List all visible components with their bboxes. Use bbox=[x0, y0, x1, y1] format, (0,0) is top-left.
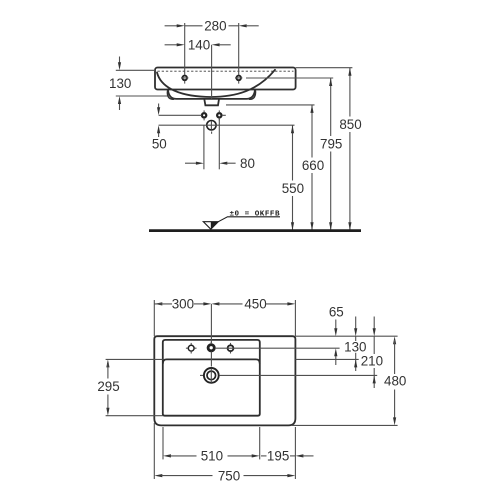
extension line 850 (basin top edge) bbox=[296, 67, 353, 69]
svg-text:65: 65 bbox=[329, 304, 344, 319]
svg-text:280: 280 bbox=[204, 19, 226, 34]
centre line (plan) bbox=[210, 304, 212, 367]
tap hole right (plan) bbox=[228, 343, 234, 354]
svg-text:295: 295 bbox=[97, 379, 119, 394]
bottom edge extension line (480) bbox=[292, 424, 398, 426]
dimension 850 bbox=[339, 68, 361, 231]
dimension 510 bbox=[163, 427, 260, 464]
svg-text:80: 80 bbox=[240, 156, 255, 171]
dimension 65 bbox=[329, 304, 344, 365]
drain cross ticks bbox=[200, 369, 211, 383]
dimension 195 bbox=[261, 449, 314, 464]
dimension 295 (plan left) bbox=[97, 359, 162, 415]
drain outer circle (plan) bbox=[204, 368, 219, 383]
dimension 660 bbox=[302, 105, 324, 230]
top edge extension line (480) bbox=[295, 335, 397, 337]
waste horizontal line / 550 extension bbox=[159, 124, 295, 126]
supply connection circle right bbox=[217, 110, 226, 120]
svg-text:130: 130 bbox=[109, 76, 131, 91]
tap hole right (elevation) bbox=[235, 76, 242, 84]
dimension 300 bbox=[154, 297, 211, 337]
waste outlet circle (elevation) bbox=[207, 121, 216, 134]
svg-text:±0 = OKFFB: ±0 = OKFFB bbox=[230, 211, 280, 219]
drain inner circle (plan) bbox=[207, 371, 216, 380]
svg-text:795: 795 bbox=[320, 137, 342, 152]
extension line 660 (drain bottom level) bbox=[226, 104, 315, 106]
apron right notch bbox=[249, 91, 255, 100]
dimension 795 bbox=[320, 78, 342, 230]
bowl front arc (elevation) bbox=[157, 70, 275, 97]
svg-text:850: 850 bbox=[339, 117, 361, 132]
extension line 195/750 right (from basin right edge) bbox=[294, 427, 296, 460]
svg-text:660: 660 bbox=[302, 158, 324, 173]
dimension 480 bbox=[384, 336, 406, 425]
svg-text:480: 480 bbox=[384, 374, 406, 389]
svg-text:450: 450 bbox=[244, 297, 266, 312]
dimension 140 bbox=[165, 38, 231, 53]
dimension 80 bbox=[185, 118, 255, 171]
dimension 50 bbox=[152, 104, 202, 152]
svg-text:195: 195 bbox=[267, 449, 289, 464]
svg-text:140: 140 bbox=[188, 38, 210, 53]
dimension 750 bbox=[154, 423, 295, 483]
basin inner rim outline (plan) bbox=[163, 340, 260, 416]
drain trapezoid bbox=[204, 99, 219, 105]
dimension 550 bbox=[282, 125, 304, 230]
svg-text:750: 750 bbox=[218, 468, 240, 483]
basin body outline (elevation) bbox=[155, 68, 296, 90]
svg-text:130: 130 bbox=[344, 340, 366, 355]
drain extension line (210) bbox=[220, 374, 378, 376]
svg-text:300: 300 bbox=[172, 297, 194, 312]
svg-text:510: 510 bbox=[201, 449, 223, 464]
dashed back-edge line bbox=[158, 70, 294, 72]
tap hole left (plan) bbox=[186, 343, 197, 354]
dimension 210 bbox=[361, 317, 383, 389]
dimension 130 (plan right) bbox=[344, 317, 366, 372]
svg-text:210: 210 bbox=[361, 354, 383, 369]
bowl top divider line bbox=[163, 359, 260, 363]
dimension 130 (elevation left) bbox=[109, 57, 167, 111]
svg-text:50: 50 bbox=[152, 137, 167, 152]
basin outer outline (plan) bbox=[154, 336, 295, 425]
supply connection circle left bbox=[202, 110, 206, 120]
apron left notch bbox=[167, 91, 173, 100]
bowl divider extension line (130) bbox=[295, 358, 358, 360]
apron / skirt outline bbox=[168, 90, 255, 99]
tap hole left (elevation) bbox=[181, 76, 188, 84]
floor line bbox=[149, 229, 361, 232]
dimension 450 bbox=[211, 297, 295, 337]
dimension 280 bbox=[165, 19, 259, 76]
extension line 795 (tap deck level) bbox=[246, 77, 333, 79]
tap hole row extension line (65) bbox=[215, 347, 340, 349]
floor level symbol triangle bbox=[203, 217, 280, 229]
svg-text:550: 550 bbox=[282, 181, 304, 196]
centre line (elevation) bbox=[211, 45, 213, 99]
tap hole middle (plan) bbox=[208, 342, 214, 351]
